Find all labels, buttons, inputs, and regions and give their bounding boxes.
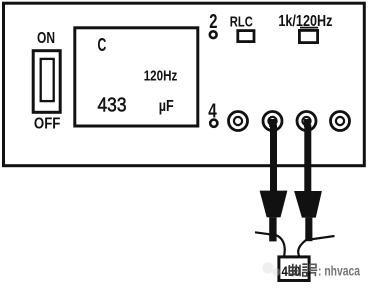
left probe tip [269, 217, 276, 241]
svg-text:RLC: RLC [230, 14, 253, 31]
svg-text:C: C [98, 34, 107, 55]
right test lead shaft [304, 125, 311, 192]
wire wrapped over left probe tip to capacitor [255, 232, 285, 256]
right probe body (trapezoid) [294, 191, 322, 218]
RLC button [238, 31, 254, 42]
watermark CJK glyph wei [288, 264, 297, 276]
right probe tip [305, 218, 312, 242]
jack 4 (rightmost banana jack) [331, 112, 350, 131]
svg-text:OFF: OFF [34, 115, 61, 132]
power switch body [33, 51, 60, 113]
watermark wechat icon (faint) [263, 263, 281, 277]
left test lead shaft [270, 125, 277, 192]
watermark CJK glyph hao [309, 264, 318, 276]
svg-text:ON: ON [37, 30, 55, 47]
panel: LCR meter front panel outline [4, 3, 365, 166]
jack 1 (leftmost banana jack) [229, 112, 248, 131]
wire wrapped over right probe tip to capacitor [298, 236, 334, 257]
svg-text:2: 2 [209, 10, 217, 33]
underline under 120 [300, 27, 318, 29]
terminal pin 2 [210, 31, 217, 38]
left probe body (trapezoid) [260, 191, 288, 218]
svg-text:: nhvaca: : nhvaca [318, 263, 360, 279]
LCD display bezel [75, 28, 198, 126]
jack 3 with plug inserted [297, 112, 316, 131]
capacitor under test (box) [279, 257, 309, 281]
power switch actuator [41, 59, 54, 101]
svg-text:433: 433 [98, 93, 127, 116]
terminal pin 4 [210, 120, 217, 127]
svg-text:µF: µF [159, 98, 174, 115]
frequency button [299, 30, 317, 42]
watermark CJK glyph xin [300, 264, 307, 276]
svg-text:120Hz: 120Hz [144, 68, 178, 84]
jack 2 with plug inserted [263, 112, 282, 131]
